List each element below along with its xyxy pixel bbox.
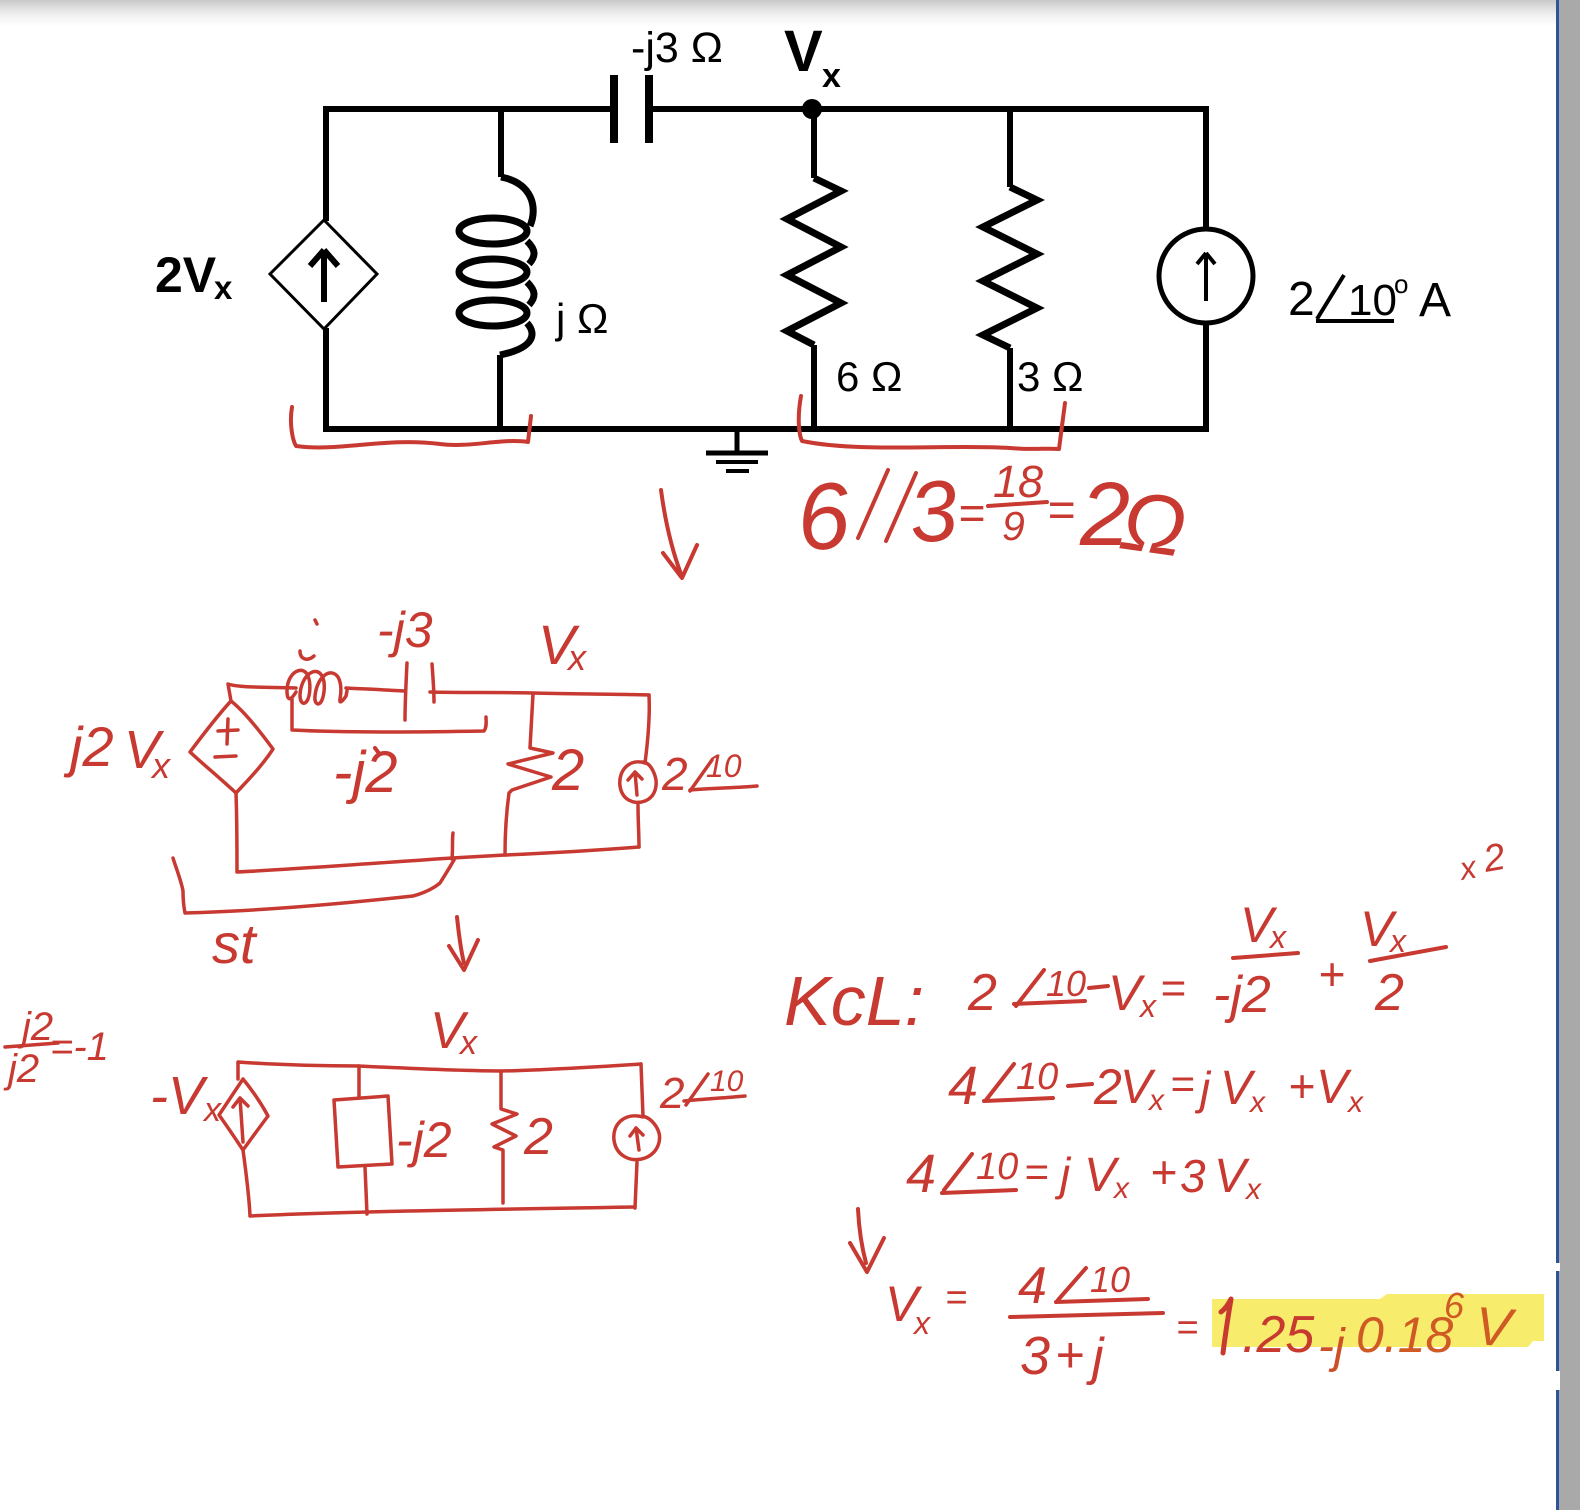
svg-text:0.18: 0.18	[1356, 1307, 1454, 1363]
svg-text:j: j	[1086, 1328, 1105, 1386]
svg-text:j: j	[1194, 1062, 1212, 1114]
svg-text:j2: j2	[3, 1047, 39, 1091]
svg-text:V: V	[1316, 1061, 1352, 1114]
svg-text:3 Ω: 3 Ω	[1017, 353, 1083, 400]
svg-text:-j2: -j2	[396, 1112, 452, 1168]
sketch2 top wire with corner	[228, 684, 649, 701]
wire inductor branch bottom	[497, 355, 503, 432]
label 2Vx	[155, 247, 233, 306]
svg-text:2V: 2V	[155, 247, 217, 303]
sketch2 ground bracket	[173, 858, 454, 913]
svg-text:=: =	[1176, 1307, 1198, 1349]
red down arrow 2	[449, 917, 478, 970]
fraction Vx over -j2	[1213, 897, 1287, 1024]
svg-text:2: 2	[1374, 964, 1404, 1022]
svg-text:-j: -j	[1318, 1320, 1346, 1373]
node Vx dot	[802, 99, 822, 119]
equation 2 angle 10 - Vx =	[967, 963, 1186, 1024]
svg-text:10: 10	[1046, 963, 1086, 1004]
sketch3 label 2 angle 10	[659, 1065, 744, 1118]
svg-text:18: 18	[993, 456, 1043, 507]
svg-text:10: 10	[1016, 1056, 1058, 1098]
svg-text:=: =	[1160, 964, 1186, 1013]
svg-text:x: x	[1138, 988, 1157, 1024]
red bracket under 6 and 3 ohm	[799, 396, 1065, 449]
svg-text:V: V	[784, 19, 823, 84]
svg-text:x: x	[202, 1091, 222, 1129]
sketch3 resistor branch 2	[492, 1071, 517, 1203]
svg-text:3: 3	[1180, 1150, 1206, 1202]
svg-text:6: 6	[793, 462, 855, 571]
scrollbar thumb gaps	[1555, 1263, 1560, 1271]
fraction Vx over 2	[1360, 901, 1407, 1022]
sketch2 label j2Vx	[63, 715, 172, 786]
svg-text:10: 10	[1348, 276, 1397, 325]
svg-text:-j2: -j2	[333, 740, 397, 805]
svg-text:=: =	[945, 1277, 967, 1319]
wire resistor R2 branch	[1007, 109, 1013, 187]
top shadow gradient	[0, 0, 1580, 26]
wire resistor R1 branch	[811, 109, 817, 178]
sketch2 inductor coil m	[287, 620, 347, 704]
sketch2 resistor branch with zigzag 2	[505, 694, 553, 855]
svg-text:x: x	[1112, 1172, 1130, 1205]
scrollbar gray strip	[1559, 0, 1580, 1510]
svg-text:j2: j2	[63, 715, 114, 778]
svg-text:A: A	[1419, 274, 1451, 327]
label Vx	[784, 19, 841, 95]
resistor R2 3 ohm zigzag	[983, 187, 1037, 348]
svg-text:2: 2	[523, 1108, 553, 1166]
svg-text:-V: -V	[150, 1066, 209, 1126]
svg-text:j: j	[1054, 1148, 1072, 1200]
sketch3 dependent source diamond with arrow	[219, 1079, 268, 1150]
inductor L (j ohm)	[459, 177, 534, 355]
svg-text:2: 2	[659, 1069, 684, 1118]
sketch2 capacitor -j3 plates	[405, 663, 434, 720]
red bracket under left branch	[291, 407, 531, 447]
wire left branch upper	[323, 106, 329, 221]
svg-text:-j3 Ω: -j3 Ω	[631, 24, 723, 72]
note x2	[1455, 836, 1508, 887]
svg-text:V: V	[1214, 1150, 1250, 1203]
svg-text:2: 2	[661, 748, 688, 800]
sketch2 bottom wire	[236, 793, 639, 872]
annotation 6//3 = 18/9 = 2 ohm	[793, 456, 1192, 575]
sketch2 dependent source diamond	[190, 701, 273, 793]
svg-text:Ω: Ω	[1115, 473, 1191, 575]
result Vx = fraction	[885, 1257, 1198, 1386]
svg-text:x: x	[458, 1024, 478, 1062]
svg-text:=-1: =-1	[50, 1025, 109, 1069]
yellow highlight	[1212, 1294, 1544, 1347]
svg-text:x: x	[1248, 1086, 1266, 1119]
svg-text:2: 2	[1479, 836, 1508, 881]
svg-text:x: x	[214, 269, 233, 306]
svg-text:10: 10	[706, 748, 742, 784]
sketch3 current source circle	[614, 1064, 660, 1208]
svg-text:10: 10	[976, 1146, 1018, 1188]
svg-text:2: 2	[967, 964, 997, 1022]
sketch3 label -Vx	[150, 1066, 222, 1129]
note j2/j2 = -1	[3, 1005, 109, 1091]
sketch3 top wire	[238, 1062, 641, 1079]
svg-text:6: 6	[1444, 1285, 1465, 1326]
svg-text:=: =	[1024, 1148, 1049, 1195]
equation 4 angle 10 = jVx + 3Vx	[906, 1144, 1262, 1206]
red down arrow 3	[850, 1209, 884, 1272]
label 2 angle 10 A	[1288, 269, 1451, 327]
red down arrow 1	[661, 490, 697, 578]
svg-text:st: st	[212, 912, 258, 975]
svg-text:.25: .25	[1242, 1306, 1315, 1364]
svg-text:x: x	[1455, 848, 1480, 887]
equation 4 angle 10 - 2Vx = jVx + Vx	[948, 1056, 1364, 1119]
result value 1.25 - j0.186 V	[1242, 1285, 1518, 1373]
result value digit 1 stroke	[1221, 1299, 1231, 1353]
svg-text:2: 2	[1288, 273, 1315, 326]
sketch3 impedance box -j2	[334, 1066, 392, 1214]
sketch3 label Vx	[430, 1002, 478, 1062]
wire inductor branch top	[498, 109, 504, 177]
svg-text:x: x	[822, 57, 841, 95]
dependent current source 2Vx (diamond)	[270, 220, 377, 329]
svg-text:KcL:: KcL:	[784, 962, 924, 1040]
sketch2 inner wire from coil bottom	[292, 699, 486, 732]
svg-text:+: +	[1318, 948, 1345, 1000]
svg-text:=: =	[1170, 1060, 1195, 1107]
svg-text:10: 10	[710, 1065, 744, 1098]
svg-text:x: x	[1244, 1173, 1262, 1206]
svg-text:+: +	[1055, 1327, 1084, 1383]
svg-text:x: x	[1346, 1086, 1364, 1119]
scrollbar blue line	[1556, 0, 1559, 1510]
svg-text:o: o	[1394, 269, 1408, 299]
capacitor C (-j3 ohm) plates	[614, 75, 649, 143]
wire left branch lower	[323, 328, 329, 432]
svg-text:+: +	[1288, 1060, 1315, 1112]
svg-text:x: x	[912, 1305, 931, 1341]
svg-text:-j3: -j3	[377, 602, 433, 658]
svg-text:10: 10	[1090, 1259, 1130, 1300]
svg-text:x: x	[566, 637, 588, 678]
svg-text:3: 3	[1020, 1326, 1050, 1386]
svg-text:2: 2	[551, 738, 584, 803]
svg-text:4: 4	[906, 1144, 936, 1204]
svg-text:x: x	[150, 745, 172, 786]
svg-text:x: x	[1268, 919, 1287, 955]
svg-text:6 Ω: 6 Ω	[836, 353, 902, 400]
sketch2 ink speck	[375, 748, 378, 752]
resistor R1 6 ohm zigzag	[787, 178, 841, 345]
wire right branch	[1203, 106, 1209, 229]
svg-text:x: x	[1147, 1084, 1165, 1117]
svg-text:j Ω: j Ω	[554, 295, 608, 342]
svg-text:4: 4	[1018, 1257, 1047, 1315]
wire top left segment	[326, 106, 613, 112]
sketch2 label 2 angle 10	[661, 748, 742, 800]
svg-text:4: 4	[948, 1056, 978, 1116]
sketch2 right branch and current source circle	[620, 695, 656, 847]
sketch2 label Vx top	[538, 613, 588, 678]
svg-text:9: 9	[1002, 503, 1025, 549]
svg-text:2: 2	[1093, 1059, 1122, 1115]
svg-text:+: +	[1150, 1146, 1177, 1198]
wire top right segment	[649, 106, 1206, 112]
svg-text:-j2: -j2	[1213, 966, 1271, 1024]
svg-text:=: =	[1047, 484, 1075, 537]
ground	[706, 429, 768, 471]
svg-text:=: =	[958, 487, 985, 539]
current source I1 circle	[1159, 229, 1253, 323]
sketch3 bottom wire	[243, 1150, 635, 1216]
wire bottom	[326, 426, 1206, 432]
